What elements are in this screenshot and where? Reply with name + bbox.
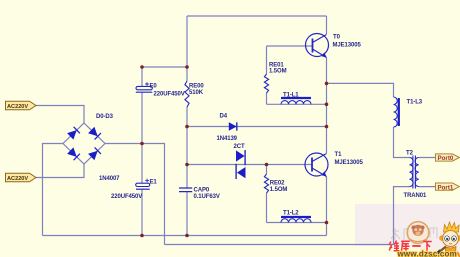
wire lower return rail [165, 244, 394, 246]
wire L2 row [267, 222, 327, 224]
diode D2 (bottom-left edge) [67, 147, 80, 160]
wire top rail [187, 15, 327, 17]
wire bridge left vertex to DC- drop [43, 144, 64, 236]
junction node 5 [185, 163, 189, 167]
wire bridge right vertex to mid drop [105, 144, 165, 245]
wire AC port 2 to bridge bottom [36, 164, 84, 178]
svg-text:220UF450V: 220UF450V [111, 194, 142, 200]
svg-text:RE00: RE00 [189, 84, 204, 90]
svg-text:1.5OM: 1.5OM [269, 69, 287, 75]
wire RE02 column [266, 165, 268, 223]
resistor RE00 510K [185, 81, 204, 107]
capacitor CAP0 0.1UF63V [179, 188, 220, 201]
transformer T2 TRAN01 [404, 151, 428, 200]
wire T0 base [267, 45, 313, 47]
wire RE01 column [266, 46, 268, 104]
junction node 1 [185, 65, 189, 69]
wire L1 row [267, 103, 327, 105]
inductor T1-L3 [394, 97, 423, 127]
wire secondary top to Port0 [419, 157, 436, 159]
junction node 11 [185, 234, 189, 238]
svg-text:Port1: Port1 [438, 184, 454, 191]
wire T0 collector vertical [326, 16, 328, 34]
wire main column mid (RE00 to CAP0) [186, 107, 188, 188]
watermark mascot [433, 222, 460, 257]
wire L3 to transformer primary top [394, 127, 410, 158]
wire transformer primary bottom to return rail [394, 187, 410, 245]
svg-text:E1: E1 [150, 180, 158, 186]
watermark stamp circle [407, 222, 429, 244]
port AC220V (bottom) [6, 173, 37, 182]
junction node 3 [185, 125, 189, 129]
diode D3 (bottom-right edge) [88, 147, 101, 160]
junction node 6 [265, 163, 269, 167]
wire main column bottom (CAP0 to rail) [186, 192, 188, 236]
svg-text:1N4007: 1N4007 [99, 176, 120, 182]
svg-text:www.dzsc.com: www.dzsc.com [397, 250, 457, 257]
svg-text:1N4139: 1N4139 [217, 136, 238, 142]
svg-text:T2: T2 [406, 151, 414, 157]
resistor RE02 1.5OM [264, 174, 287, 193]
svg-text:AC220V: AC220V [7, 104, 28, 110]
wire T1 collector vertical [326, 127, 328, 154]
wire T1 emitter vertical [326, 177, 328, 236]
svg-text:Port0: Port0 [438, 155, 454, 162]
inductor T1-L1 [281, 93, 311, 105]
junction node 2 [140, 142, 144, 146]
svg-text:RE01: RE01 [269, 63, 284, 69]
svg-text:CAP0: CAP0 [194, 188, 210, 194]
diode D4 1N4139 [217, 114, 238, 143]
wire main column top (node to RE00) [186, 16, 188, 81]
wire E column upper [141, 67, 143, 86]
junction node 7 [325, 82, 329, 86]
watermark red text wei-ku-yi-xia (drawn strokes) [389, 241, 432, 251]
svg-text:220UF450V: 220UF450V [154, 92, 185, 98]
resistor RE01 1.5OM [264, 63, 286, 94]
wire row E0 top (node to main column) [142, 66, 187, 68]
svg-text:TRAN01: TRAN01 [404, 193, 428, 199]
port AC220V (top) [6, 101, 37, 110]
svg-text:T1-L3: T1-L3 [407, 100, 423, 106]
wire D4 row [187, 126, 327, 128]
inductor T1-L2 [281, 211, 311, 223]
wire E column middle [141, 92, 143, 183]
junction node 4 [325, 125, 329, 129]
junction node 0 [140, 65, 144, 69]
svg-text:D4: D4 [220, 114, 228, 120]
port Port0 [436, 154, 460, 162]
port Port1 [436, 183, 460, 191]
watermark faint characters [391, 228, 437, 240]
diac 2CT [234, 144, 246, 179]
wire E column lower [141, 189, 143, 235]
wire half-bridge node to L3 [327, 83, 394, 97]
svg-text:0.1UF63V: 0.1UF63V [194, 194, 220, 200]
svg-text:T1-L2: T1-L2 [283, 211, 299, 217]
svg-text:MJE13005: MJE13005 [335, 160, 364, 166]
diode D1 (top-right edge) [88, 127, 101, 140]
junction node 8 [325, 103, 329, 107]
capacitor E0 [136, 82, 185, 98]
wire T0 emitter vertical [326, 58, 328, 127]
capacitor E1 [111, 179, 157, 200]
wire diac row / T1 base [187, 164, 312, 166]
svg-text:T0: T0 [333, 35, 341, 41]
bridge rectifier D0-D3 diamond [63, 123, 105, 164]
svg-text:E0: E0 [150, 84, 158, 90]
svg-text:T1-L1: T1-L1 [283, 93, 299, 99]
svg-text:1.5OM: 1.5OM [270, 187, 288, 193]
wire secondary bottom to Port1 [419, 186, 436, 188]
watermark background block [355, 204, 460, 246]
transistor T1 MJE13005 [305, 152, 363, 177]
junction node 9 [325, 221, 329, 225]
wire AC port 1 to bridge top [36, 106, 84, 124]
transistor T0 MJE13005 [306, 34, 362, 58]
svg-text:AC220V: AC220V [7, 176, 28, 182]
svg-text:D0-D3: D0-D3 [96, 114, 114, 120]
svg-text:MJE13005: MJE13005 [333, 43, 362, 49]
junction node 10 [140, 234, 144, 238]
svg-text:T1: T1 [335, 152, 343, 158]
diode D0 (top-left edge) [67, 127, 80, 140]
svg-text:2CT: 2CT [234, 144, 245, 150]
svg-text:510K: 510K [189, 90, 204, 96]
wire DC- bottom rail [43, 235, 327, 237]
svg-text:RE02: RE02 [270, 181, 285, 187]
